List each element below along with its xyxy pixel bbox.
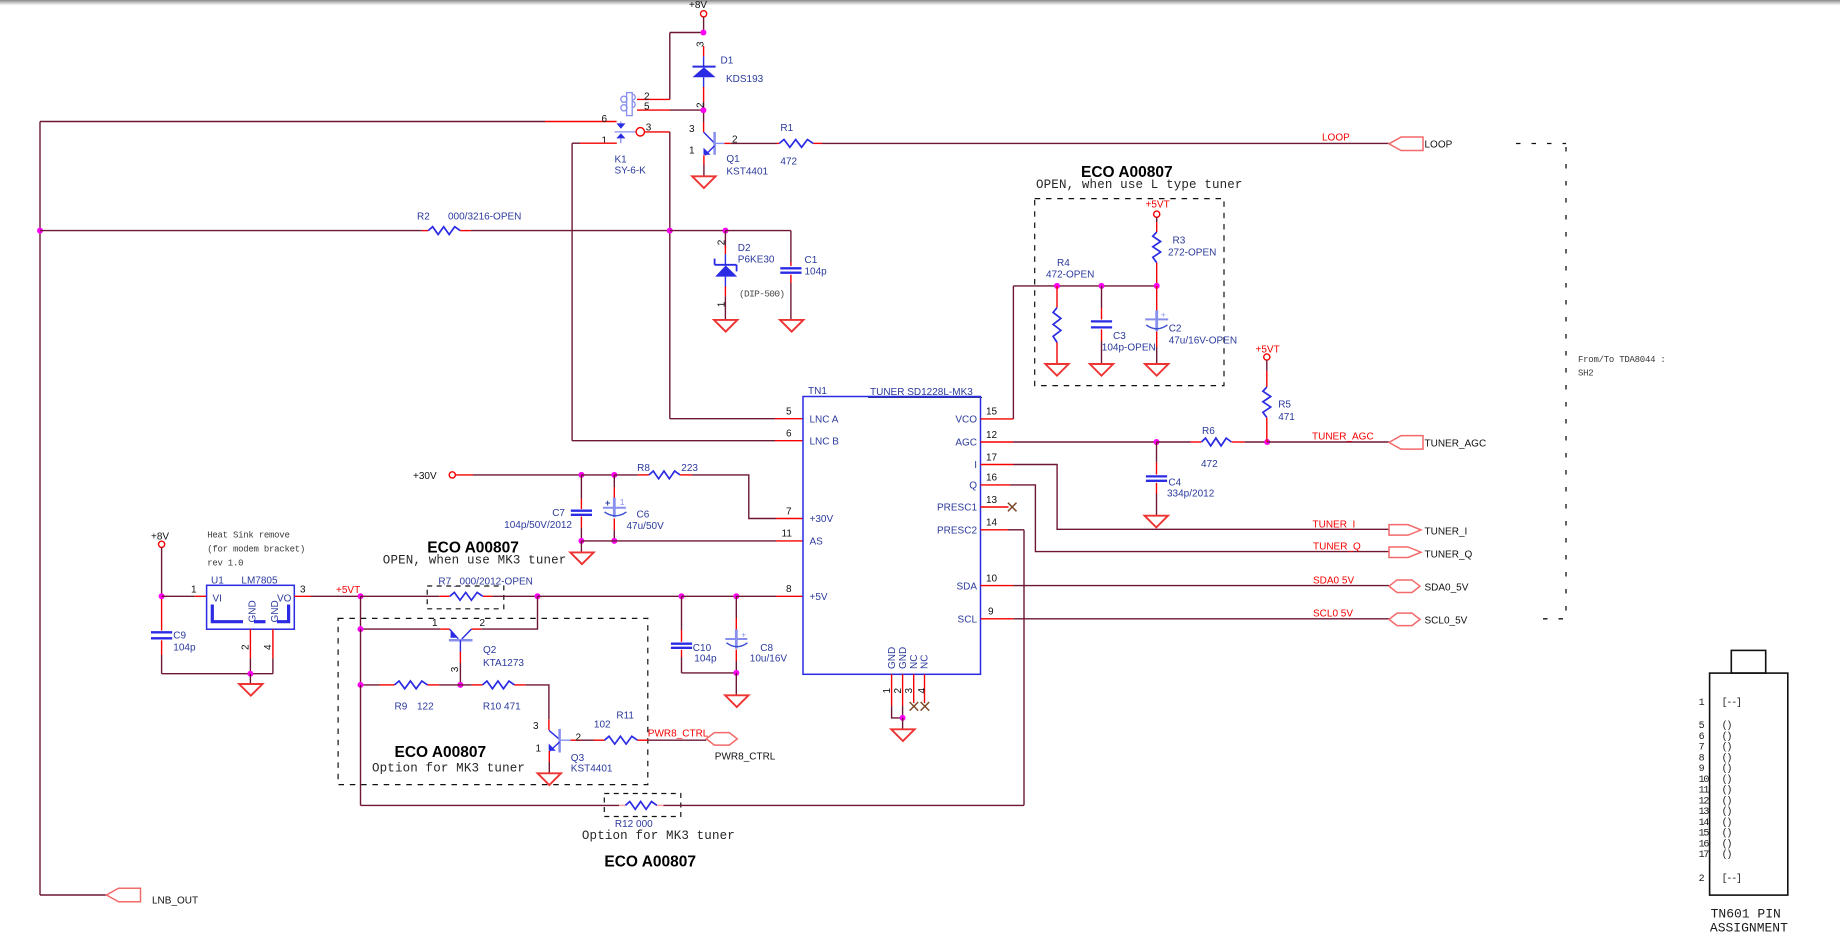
- wire U1 output +5VT: [294, 595, 360, 597]
- svg-text:R3: R3: [1173, 236, 1186, 247]
- junction C7 top: [578, 472, 584, 478]
- value 104p C10: [694, 654, 717, 665]
- capacitor C10: [671, 596, 692, 673]
- label R3: [1173, 236, 1186, 247]
- resistor R8: [649, 471, 680, 479]
- svg-text:TUNER_Q: TUNER_Q: [1313, 541, 1361, 552]
- capacitor C7: [571, 475, 592, 541]
- power +5VT (ECO box): [1146, 200, 1170, 218]
- ground C3: [1090, 364, 1113, 376]
- value 272-OPEN R3: [1168, 248, 1216, 259]
- svg-text:LOOP: LOOP: [1322, 133, 1350, 144]
- pin name AS: [810, 537, 824, 548]
- wire C9 bottom to gnd node: [162, 673, 273, 675]
- IC TN1 TUNER SD1228L-MK3: [803, 397, 981, 675]
- wire D2 anode: [724, 231, 726, 248]
- ground Q1: [692, 176, 715, 188]
- label U1: [211, 576, 224, 587]
- pin number 9: [988, 607, 994, 618]
- svg-text:2: 2: [576, 732, 582, 743]
- svg-text:(): (): [1722, 731, 1732, 743]
- svg-text:KTA1273: KTA1273: [483, 658, 524, 669]
- wire AGC to R6: [1157, 441, 1202, 443]
- wire C7 ground stub: [580, 541, 582, 553]
- capacitor C4: [1146, 442, 1167, 516]
- svg-text:GND: GND: [887, 647, 898, 669]
- svg-text:14: 14: [1699, 818, 1710, 829]
- wire LNB net top to K1 pin6: [40, 121, 617, 123]
- ground R4: [1045, 364, 1068, 376]
- connector TN601 body: [1710, 650, 1788, 895]
- terminal PWR8_CTRL: [706, 733, 776, 763]
- resistor R2: [428, 227, 460, 235]
- value 104p/50V/2012 C7: [504, 520, 572, 531]
- svg-text:3: 3: [300, 585, 306, 596]
- terminal TUNER_I: [1389, 525, 1467, 538]
- svg-text:LNC B: LNC B: [810, 436, 840, 447]
- svg-text:C7: C7: [552, 508, 565, 519]
- pin name SCL: [958, 615, 978, 626]
- svg-text:+8V: +8V: [689, 0, 707, 11]
- net label PWR8_CTRL: [648, 728, 709, 739]
- svg-text:11: 11: [782, 529, 793, 540]
- junction C8 top: [733, 593, 739, 599]
- ground TN1: [891, 729, 914, 741]
- pin number 1 U1: [191, 585, 197, 596]
- junction C10 top: [679, 593, 685, 599]
- wire +5VT to R7: [361, 595, 450, 597]
- wire SDA pin10: [981, 585, 1390, 587]
- resistor R1: [779, 140, 813, 148]
- svg-text:472-OPEN: 472-OPEN: [1046, 270, 1094, 281]
- svg-text:(): (): [1722, 763, 1732, 775]
- svg-text:PWR8_CTRL: PWR8_CTRL: [715, 752, 776, 763]
- resistor R10: [483, 681, 515, 689]
- svg-text:3: 3: [689, 124, 695, 135]
- label K1: [615, 155, 628, 166]
- svg-text:2: 2: [480, 618, 486, 629]
- junction U1 input: [159, 593, 165, 599]
- svg-text:SDA: SDA: [956, 581, 977, 592]
- svg-text:P6KE30: P6KE30: [738, 255, 775, 266]
- connector TN601 pin rows: [1699, 697, 1741, 885]
- junction C2/R3 node: [1154, 283, 1160, 289]
- junction C8 bottom: [733, 670, 739, 676]
- terminal TUNER_Q: [1389, 547, 1473, 560]
- svg-text:47u/16V-OPEN: 47u/16V-OPEN: [1169, 336, 1237, 347]
- value 472-OPEN R4: [1046, 270, 1094, 281]
- no-connect X pin3: [910, 702, 919, 711]
- relay contact K1: [615, 122, 637, 144]
- svg-text:R6: R6: [1202, 426, 1215, 437]
- terminal TUNER_AGC: [1389, 436, 1486, 450]
- svg-text:TN1: TN1: [808, 386, 827, 397]
- pin number 11: [782, 529, 793, 540]
- pin number 3 U1: [300, 585, 306, 596]
- svg-text:GND: GND: [898, 647, 909, 669]
- svg-text:1: 1: [536, 744, 542, 755]
- label KST4401 Q3: [571, 764, 613, 775]
- wire C10 to C8: [682, 595, 737, 597]
- svg-text:15: 15: [986, 407, 998, 418]
- svg-text:9: 9: [988, 607, 994, 618]
- svg-text:5: 5: [786, 407, 792, 418]
- svg-text:R10 471: R10 471: [483, 702, 521, 713]
- svg-text:SCL0 5V: SCL0 5V: [1313, 609, 1353, 620]
- pin name SDA: [956, 581, 977, 592]
- pin name PRESC2: [937, 526, 977, 537]
- label Q3: [571, 753, 585, 764]
- svg-text:471: 471: [1278, 412, 1295, 423]
- resistor R12: [625, 802, 657, 810]
- diode D2 (zener): [715, 254, 738, 286]
- pin name +30V: [810, 514, 834, 525]
- svg-text:R9: R9: [395, 702, 408, 713]
- wire R8 to pin7: [680, 475, 803, 519]
- pin name I: [974, 460, 977, 471]
- wire R9 right: [428, 684, 461, 686]
- label KST4401: [726, 167, 768, 178]
- svg-text:(): (): [1722, 785, 1732, 797]
- svg-text:122: 122: [417, 702, 434, 713]
- wire +30V: [455, 474, 581, 476]
- wire R3 bottom: [1156, 263, 1158, 286]
- label KDS193: [726, 74, 764, 85]
- wire to C6 top: [581, 474, 614, 476]
- svg-text:From/To TDA8044 :: From/To TDA8044 :: [1578, 355, 1666, 365]
- capacitor C9: [151, 599, 172, 674]
- svg-text:7: 7: [786, 506, 792, 517]
- value 47u/50V C6: [627, 521, 665, 532]
- pin number 1 Q2: [432, 618, 438, 629]
- label C10: [693, 643, 712, 654]
- svg-text:LNC A: LNC A: [810, 414, 839, 425]
- svg-text:2: 2: [240, 644, 251, 650]
- svg-text:(): (): [1722, 838, 1732, 850]
- polarity + C8: [741, 629, 746, 639]
- wire tuner NC pin3: [913, 674, 915, 703]
- pin number 1 Q1: [689, 146, 695, 157]
- svg-text:C3: C3: [1113, 331, 1126, 342]
- svg-text:SDA0 5V: SDA0 5V: [1313, 575, 1354, 586]
- pin name GND 2: [898, 647, 909, 669]
- svg-text:(): (): [1722, 795, 1732, 807]
- wire K1 pin1: [572, 142, 617, 144]
- pin number 1 Q3: [536, 744, 542, 755]
- svg-text:D1: D1: [721, 56, 734, 67]
- pin name LNC A: [810, 414, 839, 425]
- svg-text:SCL0_5V: SCL0_5V: [1425, 616, 1468, 627]
- ground D2: [714, 320, 737, 332]
- wire R12 right to PRESC2: [657, 533, 1024, 805]
- svg-text:PRESC2: PRESC2: [937, 526, 977, 537]
- pin number 6: [786, 429, 792, 440]
- svg-text:+5VT: +5VT: [1146, 200, 1170, 211]
- svg-text:13: 13: [986, 495, 998, 506]
- svg-text:3: 3: [695, 41, 706, 47]
- svg-text:ECO A00807: ECO A00807: [604, 854, 696, 871]
- wire AGC pin12: [981, 441, 1157, 443]
- svg-text:R1: R1: [780, 123, 793, 134]
- svg-text:PRESC1: PRESC1: [937, 503, 977, 514]
- wire C8 gnd: [735, 673, 737, 695]
- wire tuner NC pin4: [924, 674, 926, 703]
- svg-text:VCO: VCO: [955, 415, 977, 426]
- svg-text:13: 13: [1699, 807, 1710, 818]
- pin number 2 Q2: [480, 618, 486, 629]
- junction tuner gnd: [900, 715, 906, 721]
- wire Q2 pin3: [459, 652, 461, 685]
- wire Q2 pin1: [361, 596, 450, 629]
- svg-text:+: +: [605, 498, 610, 508]
- note ECO A00807 (option): [395, 744, 487, 761]
- svg-text:1: 1: [882, 688, 893, 694]
- dashed line From/To bottom: [1543, 618, 1566, 620]
- pin number 3 Q2: [450, 666, 461, 672]
- terminal SDA0_5V: [1389, 580, 1469, 593]
- capacitor C2 (electrolytic): [1145, 286, 1168, 364]
- pin number 2 D2: [717, 239, 728, 245]
- ground C7: [570, 552, 593, 564]
- svg-text:12: 12: [986, 430, 998, 441]
- wire C8 to pin 8: [736, 595, 803, 597]
- net label SDA0 5V: [1313, 575, 1354, 586]
- svg-text:SY-6-K: SY-6-K: [615, 166, 647, 177]
- label TUNER SD1228L-MK3: [868, 387, 982, 398]
- svg-text:+30V: +30V: [413, 471, 437, 482]
- wire R5 to AGC: [1266, 418, 1268, 443]
- terminal LOOP: [1389, 137, 1453, 151]
- svg-text:AGC: AGC: [955, 438, 977, 449]
- value 223 R8: [681, 463, 698, 474]
- note Option for MK3 tuner (R12): [582, 829, 735, 843]
- svg-text:SDA0_5V: SDA0_5V: [1425, 582, 1469, 593]
- resistor R3: [1153, 232, 1161, 263]
- junction D1 anode / K1 pin5 / Q1 base node: [700, 107, 706, 113]
- pin number 1 TN1: [882, 688, 893, 694]
- wire AS line: [581, 540, 803, 542]
- svg-text:Q1: Q1: [726, 154, 740, 165]
- svg-text:000/3216-OPEN: 000/3216-OPEN: [448, 212, 521, 223]
- svg-text:(): (): [1722, 742, 1732, 754]
- junction left rail / R2 line: [37, 228, 43, 234]
- label C9: [173, 631, 186, 642]
- power +8V top: [689, 0, 707, 17]
- pin number 2 TN1: [893, 688, 904, 694]
- svg-text:R4: R4: [1057, 258, 1070, 269]
- svg-text:ASSIGNMENT: ASSIGNMENT: [1710, 921, 1788, 934]
- svg-text:104p: 104p: [694, 654, 717, 665]
- note SH2: [1578, 369, 1593, 379]
- svg-text:TUNER SD1228L-MK3: TUNER SD1228L-MK3: [870, 387, 973, 398]
- value 334p/2012 C4: [1167, 489, 1215, 500]
- svg-text:272-OPEN: 272-OPEN: [1168, 248, 1216, 259]
- svg-text:C8: C8: [760, 643, 773, 654]
- svg-text:+5V: +5V: [810, 592, 828, 603]
- svg-text:AS: AS: [810, 537, 824, 548]
- note ECO A00807 (L type): [1081, 164, 1173, 181]
- transistor Q3: [549, 729, 581, 753]
- label KTA1273: [483, 658, 524, 669]
- dashed box R12: [604, 794, 681, 817]
- pin number 17: [986, 452, 998, 463]
- pin name Q: [969, 481, 977, 492]
- label R1: [780, 123, 793, 134]
- wire K1 pin1 rail to LNC B: [572, 143, 803, 441]
- label R6: [1202, 426, 1215, 437]
- svg-text:TUNER_I: TUNER_I: [1313, 519, 1356, 530]
- pin 3 contact circle K1: [636, 128, 644, 136]
- wire I pin17: [981, 465, 1390, 530]
- svg-text:KST4401: KST4401: [571, 764, 613, 775]
- wire D1 anode stub: [703, 87, 705, 108]
- svg-text:10u/16V: 10u/16V: [750, 654, 788, 665]
- wire +5V down to Q2 pin2: [471, 596, 537, 629]
- wire R4 bottom stub: [1056, 342, 1058, 364]
- svg-text:TUNER_AGC: TUNER_AGC: [1425, 439, 1487, 450]
- svg-text:10: 10: [1699, 775, 1710, 786]
- wire +5V line to C10: [538, 595, 682, 597]
- resistor R6: [1201, 438, 1231, 446]
- pin number 7: [786, 506, 792, 517]
- svg-text:+: +: [1161, 310, 1166, 320]
- svg-text:GND: GND: [270, 600, 281, 622]
- dashed line From/To top: [1516, 144, 1566, 619]
- svg-text:(): (): [1722, 774, 1732, 786]
- value 102 R11: [594, 719, 611, 730]
- note OPEN when use MK3 tuner: [383, 554, 567, 568]
- svg-text:NC: NC: [909, 655, 920, 669]
- wire R10 left: [460, 684, 482, 686]
- wire D2 cathode: [724, 287, 726, 320]
- junction R4 top: [1054, 283, 1060, 289]
- pin number 3 TN1: [904, 688, 915, 694]
- svg-text:16: 16: [1699, 839, 1710, 850]
- svg-text:+5VT: +5VT: [336, 585, 360, 596]
- label LM7805: [241, 576, 278, 587]
- svg-text:Q: Q: [969, 481, 977, 492]
- no-connect X pin4: [921, 702, 930, 711]
- ground C8/C10: [725, 695, 748, 707]
- junction C6 top: [611, 472, 617, 478]
- svg-text:KST4401: KST4401: [726, 167, 768, 178]
- pin number 1 C6: [620, 497, 625, 507]
- svg-text:1: 1: [689, 146, 695, 157]
- power +8V left: [151, 532, 169, 548]
- wire K1 pin3 to LNC A rail: [645, 132, 670, 419]
- junction +5V/Q2 feed: [535, 593, 541, 599]
- label R12 000: [615, 819, 653, 830]
- dashed box ECO L-type: [1035, 199, 1224, 386]
- svg-text:1: 1: [717, 301, 728, 307]
- resistor R7: [450, 592, 483, 600]
- wire VCO net into box: [1013, 285, 1156, 287]
- pin name VCO: [955, 415, 977, 426]
- pin number 3 K1: [646, 123, 652, 134]
- note Option for MK3 tuner: [372, 762, 525, 776]
- transistor Q2: [449, 629, 473, 651]
- svg-text:TUNER_I: TUNER_I: [1425, 526, 1468, 537]
- net label TUNER_I: [1313, 519, 1356, 530]
- label TN1: [808, 386, 827, 397]
- wire R2 left: [40, 230, 428, 232]
- ground U1: [239, 684, 262, 696]
- pin number 5: [786, 407, 792, 418]
- note TN601 PIN: [1711, 907, 1781, 922]
- svg-text:TUNER_AGC: TUNER_AGC: [1312, 432, 1374, 443]
- pin number 16: [986, 473, 998, 484]
- svg-text:14: 14: [986, 518, 998, 529]
- value 472 R1: [780, 157, 797, 168]
- svg-text:D2: D2: [738, 243, 751, 254]
- wire K1 pin5: [637, 109, 703, 111]
- pin number 2 Q1: [732, 135, 738, 146]
- wire Q1 emitter to ground: [703, 155, 705, 176]
- svg-text:R8: R8: [637, 463, 650, 474]
- label R10 471: [483, 702, 521, 713]
- value 10u/16V C8: [750, 654, 788, 665]
- svg-text:3: 3: [450, 666, 461, 672]
- svg-text:16: 16: [986, 473, 998, 484]
- value 122 R9: [417, 702, 434, 713]
- polarity + C6: [605, 498, 610, 508]
- wire tuner GND pin1: [892, 674, 903, 718]
- wire Q1 base to R1: [731, 142, 780, 144]
- junction +8V node: [700, 30, 706, 36]
- value 472 R6: [1201, 459, 1218, 470]
- svg-text:1: 1: [432, 618, 438, 629]
- net label TUNER_AGC: [1312, 432, 1374, 443]
- label D2: [738, 243, 751, 254]
- label D1: [721, 56, 734, 67]
- note Heat Sink remove: [207, 531, 289, 541]
- wire R1 to LOOP: [813, 142, 1389, 144]
- junction D2 top: [722, 228, 728, 234]
- diode D1: [693, 56, 716, 87]
- svg-text:PWR8_CTRL: PWR8_CTRL: [648, 728, 709, 739]
- junction U1 ground node: [247, 671, 253, 677]
- svg-text:TN601 PIN: TN601 PIN: [1711, 907, 1781, 922]
- polarity + C2: [1161, 310, 1166, 320]
- net label SCL0 5V: [1313, 609, 1353, 620]
- label C2: [1169, 323, 1182, 334]
- transistor Q1: [704, 132, 731, 155]
- wire Q3 emitter: [548, 751, 550, 773]
- svg-text:C4: C4: [1168, 478, 1181, 489]
- wire C10 C8 bottoms: [682, 672, 737, 674]
- pin number 3 Q3: [533, 721, 539, 732]
- svg-text:472: 472: [1201, 459, 1218, 470]
- svg-text:(): (): [1722, 806, 1732, 818]
- resistor R5: [1263, 387, 1271, 418]
- wire K1 pin2: [637, 98, 670, 100]
- wire +8V to U1: [161, 547, 163, 596]
- svg-text:Q2: Q2: [483, 645, 497, 656]
- wire +8V to D1/K1: [670, 17, 704, 100]
- pin number 2 D1: [695, 102, 706, 108]
- label Q1: [726, 154, 740, 165]
- svg-text:(): (): [1722, 720, 1732, 732]
- capacitor C1: [780, 262, 801, 319]
- pin name PRESC1: [937, 503, 977, 514]
- svg-text:NC: NC: [920, 655, 931, 669]
- label C3: [1113, 331, 1126, 342]
- label R9: [395, 702, 408, 713]
- pin number 2 K1: [644, 92, 650, 103]
- note ECO A00807 (MK3): [427, 540, 519, 557]
- label R2: [417, 212, 430, 223]
- pin number 3 Q1: [689, 124, 695, 135]
